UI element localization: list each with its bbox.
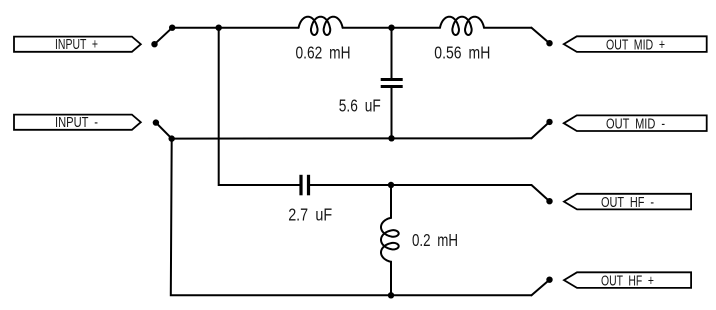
svg-text:0.56 mH: 0.56 mH: [434, 43, 490, 63]
node dot OUT HF +: [546, 277, 552, 283]
node dot switch input+ pole: [151, 41, 157, 47]
input label INPUT -: [14, 114, 141, 131]
output label OUT MID -: [564, 115, 707, 132]
svg-text:0.62 mH: 0.62 mH: [296, 43, 351, 63]
output label OUT HF +: [564, 272, 691, 289]
wire top rail left: [172, 27, 298, 29]
svg-text:2.7 uF: 2.7 uF: [288, 204, 332, 224]
inductor L3 0.2 mH stem top: [390, 185, 392, 218]
svg-text:OUT MID -: OUT MID -: [606, 115, 665, 132]
wire top rail right: [484, 27, 532, 29]
node dot OUT MID -: [546, 119, 552, 125]
output label OUT HF -: [564, 194, 691, 211]
switch from INPUT +: [155, 28, 173, 45]
wire vertical from INPUT - down and bottom rail: [171, 139, 532, 296]
svg-text:OUT HF +: OUT HF +: [601, 272, 654, 289]
wire from C2 to HF junction: [310, 184, 531, 186]
switch from INPUT -: [156, 123, 172, 139]
node dot OUT MID +: [546, 40, 552, 46]
node dot switch input- pole: [153, 119, 159, 125]
wire slant to OUT HF +: [532, 280, 550, 296]
inductor L3 0.2 mH: [381, 218, 399, 262]
svg-text:INPUT +: INPUT +: [55, 36, 98, 53]
svg-text:OUT MID +: OUT MID +: [606, 36, 665, 53]
output label OUT MID +: [564, 36, 707, 53]
inductor L3 stem bottom: [390, 262, 392, 296]
node dot switch input+ throw: [169, 25, 175, 31]
svg-text:OUT HF -: OUT HF -: [601, 194, 654, 211]
capacitor C1 5.6 uF stem top: [391, 28, 393, 78]
wire slant to OUT MID +: [532, 28, 550, 44]
node dot L1/L2/C1 junction: [388, 25, 394, 31]
capacitor C2 2.7 uF plates: [299, 175, 302, 196]
wire vertical from top junction to C2: [219, 28, 300, 185]
svg-text:INPUT -: INPUT -: [55, 114, 98, 131]
inductor L1 0.62 mH: [299, 17, 343, 35]
node dot top junction: [216, 25, 222, 31]
inductor L2 0.56 mH: [440, 17, 484, 35]
node dot HF junction: [388, 182, 394, 188]
node dot bottom junction: [388, 292, 394, 298]
svg-text:0.2 mH: 0.2 mH: [412, 230, 458, 250]
input label INPUT +: [14, 36, 141, 53]
node dot OUT HF -: [546, 198, 552, 204]
svg-text:5.6 uF: 5.6 uF: [339, 95, 381, 115]
wire slant to OUT MID -: [532, 122, 550, 138]
capacitor C1 stem bottom: [391, 88, 393, 138]
capacitor C1 plates: [381, 78, 403, 81]
wire slant to OUT HF -: [532, 185, 550, 201]
node dot input- junction: [169, 135, 175, 141]
wire mid rail: [172, 137, 532, 139]
node dot C1 bottom junction: [388, 135, 394, 141]
wire top rail mid: [343, 27, 440, 29]
